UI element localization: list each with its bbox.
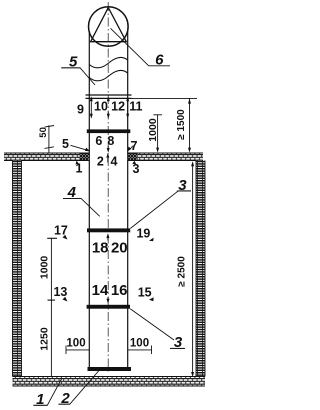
svg-text:100: 100 bbox=[66, 337, 85, 349]
part 9 arrow (duct left wall joint) bbox=[90, 96, 93, 119]
joint flange F2 bbox=[87, 305, 130, 309]
roof right slab bbox=[138, 153, 203, 161]
svg-text:16: 16 bbox=[111, 282, 128, 299]
extension line to right dims bbox=[132, 97, 198, 99]
right wall bbox=[196, 161, 205, 377]
svg-text:1: 1 bbox=[76, 161, 83, 175]
svg-text:4: 4 bbox=[111, 154, 118, 168]
callout 3 lower leader bbox=[130, 309, 174, 340]
svg-text:6: 6 bbox=[155, 52, 164, 69]
svg-text:13: 13 bbox=[53, 285, 67, 299]
callout 1 underline bbox=[33, 404, 47, 406]
dim 2500 right line bbox=[191, 161, 194, 377]
part 3 arrow bbox=[132, 161, 136, 165]
svg-text:5: 5 bbox=[62, 137, 69, 151]
roof slab outline left bbox=[4, 153, 90, 161]
break wave lower bbox=[89, 70, 128, 80]
dim line left (1000/1250) bbox=[47, 238, 57, 376]
svg-text:9: 9 bbox=[77, 102, 84, 116]
part 5 arrow at roof bbox=[71, 145, 91, 151]
part 2/4 arrow up to roof bbox=[106, 153, 109, 163]
dim 50 line with ticks bbox=[45, 125, 55, 153]
left wall bbox=[13, 161, 22, 377]
callout 5 underline bbox=[61, 67, 80, 69]
svg-text:3: 3 bbox=[133, 162, 140, 176]
part 19 arrow bbox=[149, 238, 154, 242]
callout 3 upper underline bbox=[177, 190, 191, 192]
svg-text:10: 10 bbox=[94, 99, 108, 113]
svg-text:8: 8 bbox=[107, 134, 114, 148]
svg-text:18: 18 bbox=[92, 240, 109, 257]
roof left slab bbox=[4, 153, 80, 161]
break wave upper bbox=[89, 57, 128, 67]
part 14/16 arrow down to flange bbox=[107, 297, 110, 304]
svg-text:15: 15 bbox=[138, 286, 152, 300]
callout 3 upper leader bbox=[130, 191, 191, 229]
svg-text:≥ 2500: ≥ 2500 bbox=[176, 256, 187, 287]
dim 1500 right line bbox=[188, 98, 191, 152]
dim 100 left bbox=[66, 346, 89, 355]
svg-text:12: 12 bbox=[111, 99, 125, 113]
svg-text:50: 50 bbox=[38, 127, 49, 138]
svg-text:19: 19 bbox=[136, 226, 150, 240]
part 17 arrow bbox=[63, 235, 68, 240]
part 11 arrow (duct right wall joint) bbox=[126, 96, 129, 119]
svg-text:1000: 1000 bbox=[39, 256, 51, 280]
svg-text:6: 6 bbox=[95, 134, 102, 148]
callout 4 underline bbox=[63, 198, 81, 200]
part 7 arrow at roof bbox=[127, 146, 133, 152]
svg-text:17: 17 bbox=[54, 224, 68, 238]
callout 3 lower underline bbox=[170, 347, 185, 349]
callout 2 underline bbox=[59, 403, 70, 405]
centerline of duct bbox=[107, 2, 109, 374]
svg-text:1250: 1250 bbox=[38, 327, 50, 351]
base plate bbox=[88, 367, 132, 371]
callout 2 leader bbox=[59, 371, 100, 405]
callout 1 leader bbox=[33, 378, 62, 405]
dim 100 right bbox=[128, 346, 152, 355]
callout 4 leader bbox=[63, 199, 100, 217]
part 13 arrow bbox=[63, 297, 68, 302]
fan circle U bbox=[89, 7, 129, 47]
flange double line at outlet bbox=[86, 94, 132, 96]
mounting flange thick bar bbox=[87, 129, 131, 133]
part 15 arrow bbox=[149, 297, 154, 301]
duct left wall bbox=[88, 31, 90, 367]
roof collar left bbox=[80, 153, 90, 161]
part 1 arrow bbox=[76, 161, 80, 165]
svg-text:20: 20 bbox=[111, 240, 128, 257]
svg-text:100: 100 bbox=[130, 337, 149, 349]
part 10/12 arrow (duct centre joint) bbox=[107, 96, 110, 119]
svg-text:7: 7 bbox=[131, 139, 138, 153]
dim 1000 right line bbox=[153, 115, 162, 153]
joint flange F1 bbox=[87, 228, 130, 232]
part 6/8 arrow down to roof bbox=[107, 146, 110, 153]
roof collar right bbox=[128, 153, 138, 161]
svg-text:2: 2 bbox=[97, 154, 104, 168]
roof slab outline right bbox=[128, 153, 203, 161]
callout 5 leader bbox=[61, 68, 95, 85]
svg-text:≥ 1500: ≥ 1500 bbox=[176, 109, 187, 140]
svg-text:1000: 1000 bbox=[147, 118, 159, 142]
duct right wall bbox=[127, 31, 129, 367]
floor slab bbox=[13, 377, 206, 387]
part 18/20 arrow up to flange bbox=[106, 233, 109, 240]
callout 6 leader bbox=[111, 28, 171, 66]
svg-text:11: 11 bbox=[129, 99, 142, 113]
svg-text:14: 14 bbox=[92, 282, 109, 299]
fan triangle bbox=[91, 8, 127, 42]
